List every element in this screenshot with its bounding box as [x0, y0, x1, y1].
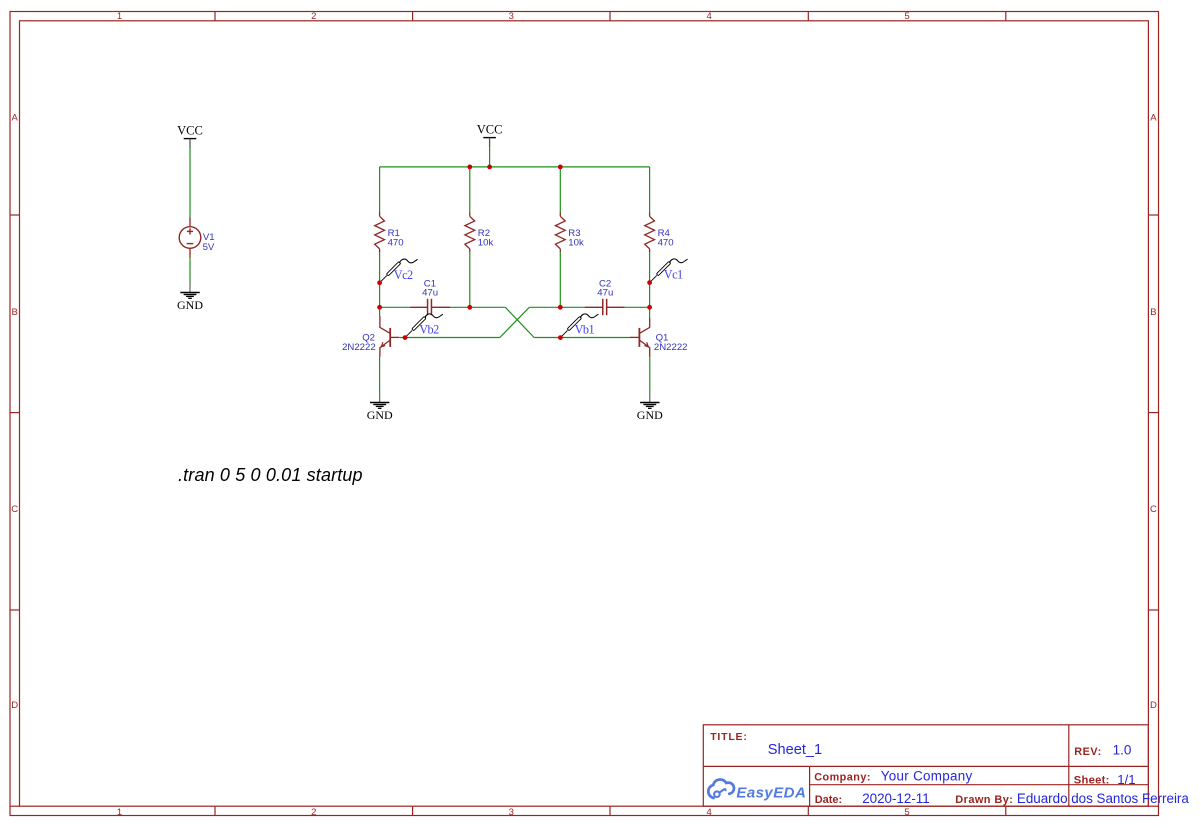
- svg-text:2: 2: [311, 11, 316, 22]
- svg-text:VCC: VCC: [477, 123, 503, 137]
- junction rail/VCC: [487, 165, 492, 170]
- wire to R3 node: [529, 306, 560, 308]
- wire rail to R3 top: [559, 167, 561, 213]
- wire top rail horizontal: [380, 166, 650, 168]
- wire diagonal cross down (left top to right bottom): [505, 307, 534, 337]
- voltage source V1: [179, 217, 201, 257]
- label C1 value: [422, 279, 438, 299]
- svg-text:3: 3: [509, 807, 514, 818]
- label R4 value: [658, 228, 674, 249]
- junction node Vb1: [558, 335, 563, 340]
- wire R1 bottom to Q2 collector node: [379, 252, 381, 316]
- svg-text:EasyEDA: EasyEDA: [736, 785, 806, 802]
- svg-text:470: 470: [658, 237, 674, 248]
- junction R2 node: [467, 305, 472, 310]
- power flag VCC (circuit): [477, 123, 503, 148]
- svg-text:2: 2: [311, 807, 316, 818]
- junction rail/R2: [467, 165, 472, 170]
- label R1 value: [388, 228, 404, 249]
- svg-text:1: 1: [117, 807, 122, 818]
- svg-text:3: 3: [509, 11, 514, 22]
- svg-text:1.0: 1.0: [1113, 743, 1132, 758]
- power flag VCC (V1 branch): [177, 124, 203, 149]
- svg-text:D: D: [11, 700, 18, 711]
- transistor Q1: [630, 318, 650, 357]
- wire VCC to top rail: [489, 147, 491, 167]
- frame column ticks top: [215, 12, 1006, 21]
- label V1 value: [203, 232, 215, 253]
- svg-text:Vb2: Vb2: [419, 323, 439, 337]
- label R2 value: [478, 228, 494, 249]
- svg-text:1: 1: [117, 11, 122, 22]
- junction R1/C1 node: [377, 305, 382, 310]
- svg-text:C: C: [11, 504, 18, 515]
- svg-text:B: B: [1150, 307, 1156, 318]
- svg-text:470: 470: [388, 237, 404, 248]
- junction node Vb2: [403, 335, 408, 340]
- wire C1 right to R2 node: [450, 306, 470, 308]
- wire R2 node east: [470, 306, 506, 308]
- voltage probe Vb2: [405, 314, 443, 338]
- svg-text:Vc2: Vc2: [394, 268, 413, 282]
- resistor R1: [375, 212, 385, 252]
- wire rail to R4 top: [649, 167, 651, 213]
- label C2 value: [597, 279, 613, 299]
- svg-text:10k: 10k: [568, 237, 584, 248]
- svg-text:2N2222: 2N2222: [342, 342, 376, 353]
- wire V1 minus to GND: [189, 257, 191, 282]
- wire R3 bottom to node: [559, 252, 561, 307]
- EasyEDA logo cloud icon: [708, 780, 734, 799]
- svg-text:.tran 0 5 0 0.01 startup: .tran 0 5 0 0.01 startup: [178, 465, 363, 485]
- ground GND (V1 branch): [177, 282, 203, 312]
- transistor Q2: [380, 316, 400, 357]
- svg-text:Vc1: Vc1: [664, 268, 683, 282]
- svg-text:Your Company: Your Company: [881, 769, 973, 784]
- svg-text:VCC: VCC: [177, 124, 203, 138]
- junction R3 node: [558, 305, 563, 310]
- svg-text:2N2222: 2N2222: [654, 342, 688, 353]
- junction R4/C2 node: [647, 305, 652, 310]
- junction rail/R3: [558, 165, 563, 170]
- label Q1 value: [654, 333, 688, 353]
- ground GND (Q2 emitter): [367, 392, 393, 422]
- voltage probe Vb1: [560, 314, 598, 338]
- svg-text:TITLE:: TITLE:: [710, 731, 747, 743]
- wire Q2 emitter to GND: [379, 357, 381, 393]
- svg-text:D: D: [1150, 700, 1157, 711]
- frame column numbers bottom: [117, 807, 910, 818]
- svg-text:A: A: [12, 113, 19, 124]
- svg-text:Sheet_1: Sheet_1: [768, 742, 822, 758]
- wire node to C1 left: [380, 306, 411, 308]
- wire to Q1 base node: [534, 337, 560, 339]
- resistor R4: [645, 212, 655, 252]
- resistor R2: [465, 212, 475, 252]
- svg-text:4: 4: [707, 807, 712, 818]
- ground GND (Q1 emitter): [637, 392, 663, 422]
- frame row ticks right: [1148, 215, 1158, 806]
- label Q2 value: [342, 333, 376, 353]
- svg-text:5: 5: [904, 807, 909, 818]
- svg-text:B: B: [12, 307, 18, 318]
- capacitor C1: [410, 299, 450, 315]
- junction node Vc1: [647, 280, 652, 285]
- svg-text:GND: GND: [637, 408, 663, 422]
- svg-text:4: 4: [707, 11, 712, 22]
- wire Q1 emitter to GND: [649, 357, 651, 393]
- wire Q2 base node east: [405, 337, 500, 339]
- wire R4 bottom to Q1 collector node: [649, 252, 651, 318]
- svg-text:1/1: 1/1: [1117, 772, 1135, 787]
- svg-text:47u: 47u: [597, 287, 613, 298]
- svg-text:2020-12-11: 2020-12-11: [862, 791, 930, 806]
- wire VCC to V1 plus: [189, 148, 191, 218]
- svg-text:Sheet:: Sheet:: [1074, 775, 1110, 787]
- frame row ticks left: [10, 215, 20, 806]
- label R3 value: [568, 228, 584, 249]
- wire diagonal cross up (left bottom to right top): [500, 307, 530, 337]
- svg-text:Company:: Company:: [814, 772, 871, 784]
- frame row letters right: [1150, 113, 1157, 711]
- wire Vb1 node to Q1 base: [560, 337, 630, 339]
- svg-text:5: 5: [904, 11, 909, 22]
- svg-text:GND: GND: [177, 298, 203, 312]
- svg-text:Vb1: Vb1: [575, 323, 595, 337]
- svg-text:47u: 47u: [422, 287, 438, 298]
- wire R3 node to C2 left: [560, 306, 585, 308]
- wire Q2 base stub: [400, 337, 405, 339]
- junction node Vc2: [377, 280, 382, 285]
- svg-text:Drawn By:: Drawn By:: [955, 794, 1013, 806]
- voltage probe Vc2: [380, 259, 418, 283]
- wire rail to R1 top: [379, 167, 381, 213]
- title block outline: [703, 725, 1148, 806]
- voltage probe Vc1: [650, 259, 688, 283]
- svg-text:5V: 5V: [203, 242, 215, 253]
- svg-text:REV:: REV:: [1074, 746, 1102, 758]
- wire rail to R2 top: [469, 167, 471, 213]
- svg-text:C: C: [1150, 504, 1157, 515]
- svg-text:GND: GND: [367, 408, 393, 422]
- frame column numbers top: [117, 11, 910, 22]
- svg-text:10k: 10k: [478, 237, 494, 248]
- svg-text:Date:: Date:: [815, 794, 843, 806]
- svg-text:A: A: [1150, 113, 1157, 124]
- resistor R3: [555, 212, 565, 252]
- wire C2 right to Q1 collector node: [624, 306, 649, 308]
- wire R2 bottom to node: [469, 252, 471, 307]
- svg-text:Eduardo dos Santos Ferreira: Eduardo dos Santos Ferreira: [1017, 791, 1189, 806]
- capacitor C2: [585, 299, 625, 315]
- frame row letters left: [11, 113, 18, 711]
- frame column ticks bottom: [215, 806, 1006, 815]
